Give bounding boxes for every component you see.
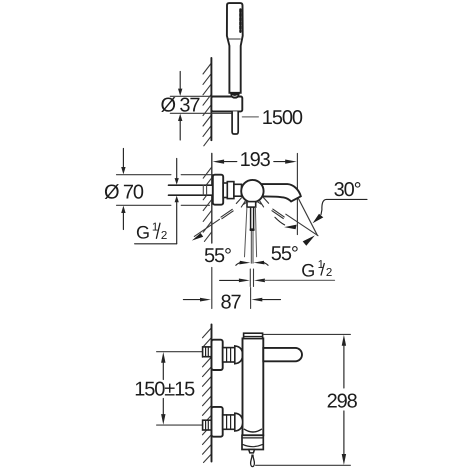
spout — [259, 184, 301, 201]
dimension Ø70 top ext line — [117, 174, 171, 176]
upper union nut — [223, 348, 235, 362]
lower escutcheon side view — [212, 407, 223, 437]
svg-text:G: G — [301, 261, 315, 281]
lever side view — [263, 348, 302, 361]
svg-text:87: 87 — [221, 291, 242, 313]
G1/2 supply arrows — [135, 159, 177, 244]
body neck — [234, 184, 242, 196]
55 left dashed line — [244, 201, 248, 204]
30deg leader — [321, 199, 367, 214]
supply pipe — [169, 185, 213, 195]
svg-text:55°: 55° — [204, 245, 231, 267]
hex nut front view — [223, 183, 227, 198]
svg-text:30°: 30° — [334, 179, 361, 201]
svg-text:193: 193 — [240, 149, 271, 171]
wall line middle view / 193-87 left extension — [211, 153, 213, 243]
lever centerline double — [250, 231, 252, 263]
upper cone — [235, 346, 243, 364]
dimension 298 ext lines — [263, 333, 350, 335]
55 right dashed line — [257, 201, 261, 204]
body side view — [243, 338, 264, 435]
svg-text:1: 1 — [152, 221, 158, 233]
hose connector cone — [230, 92, 240, 98]
rotation ticks — [236, 198, 268, 208]
dimension Ø37 up arrow — [178, 114, 182, 121]
svg-text:2: 2 — [161, 230, 167, 242]
body circle — [241, 180, 263, 202]
55 right arc arrow — [275, 217, 285, 225]
dimension 150+-15 arrows — [162, 363, 164, 415]
dimension Ø70 arrows — [122, 149, 124, 230]
lever blade edge-on — [250, 207, 252, 229]
svg-text:Ø 37: Ø 37 — [161, 94, 201, 116]
label G 1/2 right — [301, 259, 332, 280]
top cap — [244, 333, 263, 338]
wall hatch top view — [203, 63, 211, 146]
dimension 150+-15 ext lines — [157, 351, 203, 353]
shower handle seam — [229, 38, 241, 40]
upper supply stub — [203, 347, 212, 357]
lower supply stub — [203, 420, 212, 430]
escutcheon front view — [213, 175, 223, 205]
leader line 1500 — [242, 116, 258, 118]
outlet aerator — [242, 435, 263, 449]
upper escutcheon side view — [212, 340, 223, 370]
dimension Ø37 top ext line — [170, 95, 211, 97]
55 arc arrows at lever bottom — [236, 263, 240, 266]
bracket — [211, 97, 242, 112]
lever collar — [247, 202, 256, 208]
hose — [232, 111, 238, 134]
dimension 298 line — [343, 346, 345, 455]
shower head spray strip — [239, 10, 241, 32]
svg-text:G: G — [136, 223, 150, 243]
dimension Ø70 bottom ext line — [117, 204, 171, 206]
svg-text:2: 2 — [326, 267, 332, 279]
dimension 193 right ext line — [296, 154, 298, 235]
outlet nose — [249, 450, 255, 453]
55 left arrowhead — [192, 233, 203, 241]
dimension 87 — [250, 288, 252, 309]
body bottom arc — [244, 429, 261, 432]
dimension 193 line right part — [274, 161, 286, 163]
lever envelope lines — [245, 207, 247, 256]
svg-text:Ø 70: Ø 70 — [104, 181, 144, 203]
wall line bottom view — [211, 324, 213, 461]
spout stream line 30deg — [294, 189, 318, 235]
pipe wall ticks — [202, 185, 204, 195]
G1/2 outlet ext lines — [249, 269, 251, 287]
shower head outline — [227, 3, 243, 93]
wall hatch middle view — [203, 167, 212, 241]
wall hatch bottom view — [203, 328, 212, 463]
G1/2 outlet dim line — [220, 279, 239, 281]
lower union nut — [223, 415, 235, 429]
label G 1/2 left — [136, 221, 167, 242]
svg-text:1500: 1500 — [262, 107, 303, 129]
svg-text:55°: 55° — [271, 243, 298, 265]
30deg second arrow — [303, 235, 315, 245]
wall line top view — [210, 58, 212, 140]
lower cone — [235, 413, 243, 431]
dimension Ø37 down arrow — [179, 72, 181, 141]
svg-text:150±15: 150±15 — [134, 379, 195, 401]
dimension 193 line left part — [224, 161, 237, 163]
dimension Ø37 bottom ext line — [170, 112, 232, 114]
water drop — [251, 455, 255, 466]
svg-text:298: 298 — [327, 391, 358, 413]
